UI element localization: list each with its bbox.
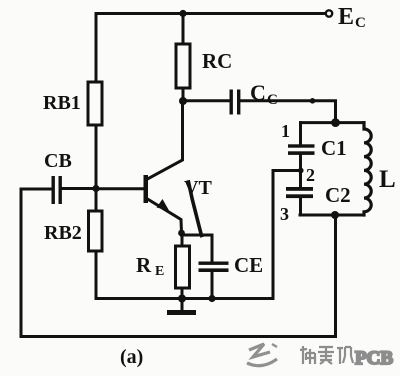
node base [92, 185, 99, 192]
transistor VT base bar [144, 175, 149, 203]
wire RC bottom to collector node [182, 88, 185, 101]
capacitor C1 [288, 144, 315, 155]
svg-text:RC: RC [202, 49, 232, 73]
watermark logo [247, 344, 277, 366]
transistor VT emitter [148, 199, 182, 233]
transistor VT emitter arrow [157, 199, 170, 211]
wire tap 2 feedback to lower rail [273, 171, 301, 299]
wire base node to transistor base [96, 187, 144, 190]
svg-text:RB2: RB2 [44, 222, 82, 244]
wire top rail to RC [182, 14, 185, 45]
node emitter [178, 230, 185, 237]
wire RE bottom lead [181, 288, 184, 299]
inductor L [364, 123, 371, 215]
node tank top feed [331, 118, 340, 127]
svg-text:CE: CE [234, 253, 263, 277]
capacitor C2 [286, 187, 313, 198]
wire RB1 top lead [95, 14, 98, 83]
wire RE top lead [181, 233, 184, 246]
svg-text:C: C [355, 15, 366, 31]
wire top supply rail [96, 12, 325, 15]
node RE bottom [178, 295, 186, 303]
node 2 [298, 168, 304, 174]
resistor RE [176, 246, 190, 288]
wire emitter node to CE [182, 235, 213, 262]
wire tank top [301, 121, 365, 124]
wire collector [148, 101, 183, 179]
wire collector node to CC [183, 99, 229, 102]
svg-text:E: E [155, 264, 164, 279]
capacitor CB [52, 176, 62, 204]
resistor RB2 [89, 211, 103, 251]
wire CC to tank top [240, 101, 336, 123]
svg-text:2: 2 [306, 165, 315, 185]
wire C2 bottom lead [299, 198, 302, 215]
wire bottom feedback rail [21, 215, 336, 337]
svg-text:C2: C2 [325, 183, 351, 207]
wire CB right plate to base node [62, 187, 96, 190]
node top rail to RC branch [179, 10, 186, 17]
ground [167, 299, 196, 316]
wire RB2 bottom to lower rail [96, 251, 273, 299]
svg-text:PCB: PCB [355, 348, 393, 369]
svg-text:R: R [136, 253, 152, 277]
wire tank bottom [300, 214, 364, 217]
label VT leader stroke [189, 182, 202, 236]
svg-text:CB: CB [44, 150, 72, 172]
junction dot on CC wire [310, 98, 316, 104]
terminal Ec [326, 10, 332, 16]
resistor RC [176, 44, 190, 88]
svg-text:1: 1 [281, 121, 290, 141]
resistor RB1 [88, 82, 102, 125]
wire C1 bottom to node 2 [299, 155, 302, 171]
wire C1 top lead [299, 123, 302, 145]
svg-text:(a): (a) [120, 346, 143, 368]
svg-text:3: 3 [280, 204, 289, 224]
svg-text:E: E [338, 4, 354, 30]
capacitor CE [199, 262, 229, 273]
wire CB left plate to feedback line [21, 189, 52, 337]
capacitor CC [230, 90, 241, 115]
wire CE bottom lead [211, 272, 214, 299]
label EC [338, 4, 366, 31]
svg-text:RB1: RB1 [43, 92, 81, 114]
svg-text:L: L [379, 166, 396, 193]
node CE bottom [208, 295, 215, 302]
label CC [250, 80, 278, 108]
wire base node to RB2 [95, 189, 98, 212]
wire RB1 bottom to base node [95, 125, 98, 189]
watermark text [300, 346, 393, 369]
node tank bottom [331, 211, 339, 219]
svg-text:C1: C1 [321, 136, 347, 160]
node collector [179, 97, 187, 105]
wire node 2 to C2 [299, 171, 302, 188]
label RE [136, 253, 164, 279]
